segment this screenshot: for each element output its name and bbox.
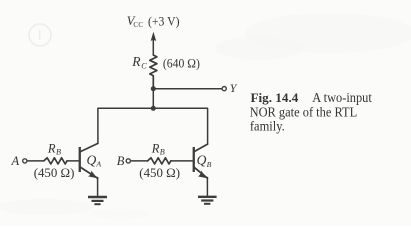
svg-text:Q: Q [87, 152, 97, 167]
svg-text:B: B [117, 154, 125, 168]
svg-text:(450 Ω): (450 Ω) [139, 165, 180, 180]
svg-text:B: B [207, 160, 212, 169]
svg-text:CC: CC [133, 21, 143, 29]
svg-text:family.: family. [250, 119, 285, 134]
svg-text:A: A [95, 160, 101, 169]
svg-text:Fig. 14.4: Fig. 14.4 [251, 90, 299, 105]
svg-text:(640 Ω): (640 Ω) [163, 56, 200, 70]
svg-text:C: C [141, 62, 147, 71]
svg-text:A two-input: A two-input [312, 90, 372, 105]
svg-text:B: B [56, 148, 61, 157]
svg-text:A: A [11, 154, 20, 168]
svg-text:Q: Q [197, 153, 207, 168]
svg-text:(450 Ω): (450 Ω) [34, 165, 75, 180]
svg-text:Y: Y [230, 81, 238, 95]
svg-text:R: R [131, 54, 141, 69]
svg-text:NOR gate of the RTL: NOR gate of the RTL [250, 105, 358, 120]
svg-text:R: R [151, 141, 160, 155]
svg-text:R: R [47, 141, 56, 155]
svg-text:B: B [160, 148, 165, 157]
svg-text:(+3 V): (+3 V) [148, 15, 180, 29]
